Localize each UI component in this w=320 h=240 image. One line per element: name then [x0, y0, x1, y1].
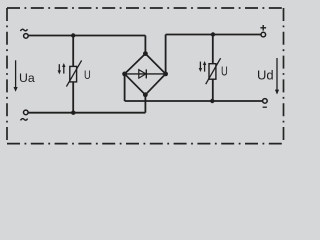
- node bridge left corner: [122, 72, 127, 77]
- wire bridge bottom drop: [144, 95, 146, 113]
- node bridge bottom corner: [143, 92, 148, 97]
- terminal top-right plus: [261, 32, 266, 37]
- svg-text:Ud: Ud: [257, 67, 274, 82]
- wire left varistor lower: [72, 82, 74, 113]
- terminal bottom-left AC: [24, 110, 29, 115]
- label ~ (top-left): [20, 29, 27, 31]
- label minus: [263, 106, 267, 108]
- node right varistor bottom junction: [210, 99, 214, 103]
- varistor R1 surge arrows: [58, 63, 66, 74]
- wire top-right horizontal: [166, 34, 261, 36]
- wire top-left horizontal: [28, 35, 145, 37]
- node bridge top corner: [143, 51, 148, 56]
- svg-text:Ua: Ua: [19, 71, 35, 85]
- terminal bottom-right minus: [263, 99, 268, 104]
- wire bottom-right horizontal: [125, 100, 263, 102]
- wire right varistor lower: [212, 79, 214, 101]
- wire bridge left corner drop: [124, 74, 126, 101]
- wire right varistor upper: [212, 35, 214, 64]
- varistor R2 surge arrows: [199, 61, 207, 72]
- wire bridge top drop: [144, 36, 146, 54]
- wire left varistor upper: [72, 36, 74, 67]
- svg-text:U: U: [221, 65, 228, 79]
- wire bridge right corner riser: [165, 35, 167, 74]
- wire bottom-left horizontal: [28, 112, 145, 114]
- terminal top-left AC: [24, 34, 29, 39]
- label +: [260, 25, 266, 31]
- label ~ (bottom-left): [21, 119, 28, 121]
- node right varistor top junction: [211, 32, 215, 36]
- node left varistor top junction: [71, 33, 75, 37]
- svg-text:U: U: [84, 69, 91, 82]
- node left varistor bottom junction: [71, 111, 75, 115]
- varistor R1 (left) body: [66, 60, 81, 86]
- enclosure border (dash-dot frame): [7, 8, 284, 144]
- label U (right varistor): [221, 65, 228, 79]
- varistor R2 (right) body: [206, 58, 221, 84]
- diode V1 inside bridge: [125, 69, 166, 78]
- bridge rectifier U1 diamond: [125, 54, 166, 95]
- label U (left varistor): [84, 69, 91, 82]
- node bridge right corner: [163, 72, 168, 77]
